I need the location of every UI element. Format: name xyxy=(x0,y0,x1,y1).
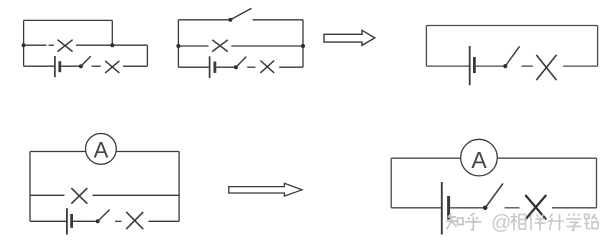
wire drop from top branch to middle node C1 xyxy=(111,20,113,45)
arrow bottom (hollow block arrow) xyxy=(229,183,302,196)
wire lamp to right vertical C2 xyxy=(279,66,303,68)
lamp L7 (X on bottom branch C4) xyxy=(126,212,143,229)
wire left vertical C5 xyxy=(390,158,392,208)
wire battery to switch C1 xyxy=(61,65,81,67)
wire lamp to right vertical C1 xyxy=(123,65,147,67)
switch S5 (open C4) xyxy=(96,210,122,224)
wire middle branch C4 xyxy=(30,194,179,196)
battery B2 xyxy=(210,56,215,78)
lamp L8 (large bold X C5) xyxy=(525,195,546,220)
wire right vertical C2 xyxy=(302,20,304,67)
wire bottom branch left C1 xyxy=(24,65,55,67)
watermark glyph 知 xyxy=(446,214,463,230)
watermark glyph 学 xyxy=(566,213,582,231)
wire middle branch C1 xyxy=(24,44,148,46)
wire lamp to right vertical C5 xyxy=(552,207,597,209)
wire left vertical C2 xyxy=(177,20,179,67)
watermark glyph 路 xyxy=(585,214,599,229)
wire battery to switch C4 xyxy=(73,220,98,222)
battery B4 xyxy=(67,208,72,234)
battery B3 xyxy=(470,46,475,85)
lamp L4 (X on bottom branch C2) xyxy=(260,61,274,73)
lamp L2 (X on bottom branch C1) xyxy=(105,61,119,73)
wire right vertical C1 xyxy=(146,45,148,66)
wire bottom branch left C2 xyxy=(178,66,209,68)
watermark glyph 升 xyxy=(548,214,565,231)
lamp L3 (X on middle branch C2) xyxy=(212,40,228,52)
wire left vertical C1 xyxy=(23,20,25,66)
watermark glyph 伴 xyxy=(530,213,546,231)
battery B5 xyxy=(442,182,449,235)
switch S2 (open, top branch) xyxy=(228,8,251,21)
wire top branch C1 xyxy=(24,19,113,21)
wire middle branch C2 xyxy=(178,45,303,47)
arrow top (hollow block arrow) xyxy=(324,30,375,45)
wire bottom branch left C3 xyxy=(426,65,469,67)
svg-text:@: @ xyxy=(491,212,511,234)
wire top branch left C2 xyxy=(178,19,230,21)
wire bottom branch left C5 xyxy=(391,207,441,209)
wire right vertical C4 xyxy=(178,152,180,222)
switch S3 (open, bottom branch C2) xyxy=(234,57,256,70)
switch S1 (open) xyxy=(79,56,101,68)
wire top branch right C2 xyxy=(253,19,304,21)
wire battery to switch C3 xyxy=(476,65,506,67)
lamp L6 (X on middle branch C4) xyxy=(71,188,87,204)
ammeter M1 (circle) xyxy=(86,134,117,165)
wire top side C3 xyxy=(426,25,597,27)
switch S4 (open C3) xyxy=(503,46,533,68)
wire right vertical C3 xyxy=(597,26,599,67)
node C (left junction dot C2) xyxy=(176,44,180,48)
lamp L1 (X on middle branch C1) xyxy=(58,40,73,52)
svg-text:A: A xyxy=(471,147,487,173)
wire battery to switch C2 xyxy=(216,66,236,68)
ammeter M2 (circle) xyxy=(461,139,498,176)
wire bottom branch left C4 xyxy=(30,220,66,222)
battery B1 xyxy=(55,56,60,77)
wire lamp to right vertical C3 xyxy=(563,65,598,67)
node B (right junction dot C1) xyxy=(110,43,114,47)
wire right vertical C5 xyxy=(596,158,598,208)
wire top branch right C4 xyxy=(116,151,179,153)
switch S6 (open C5) xyxy=(483,183,520,210)
wire battery to switch C5 xyxy=(450,207,485,209)
watermark glyph 乎 xyxy=(465,213,482,231)
lamp L5 (large X C3) xyxy=(536,55,556,80)
wire top branch right C5 xyxy=(497,157,596,159)
node D (right junction dot C2) xyxy=(301,44,305,48)
wire left vertical C3 xyxy=(425,26,427,67)
wire top branch left C4 xyxy=(30,151,86,153)
wire left vertical C4 xyxy=(29,152,31,222)
svg-text:A: A xyxy=(94,137,109,162)
wire top branch left C5 xyxy=(391,157,461,159)
watermark glyph 相 xyxy=(511,213,526,231)
node A (left junction dot C1) xyxy=(22,43,26,47)
wire lamp to right vertical C4 xyxy=(149,220,180,222)
